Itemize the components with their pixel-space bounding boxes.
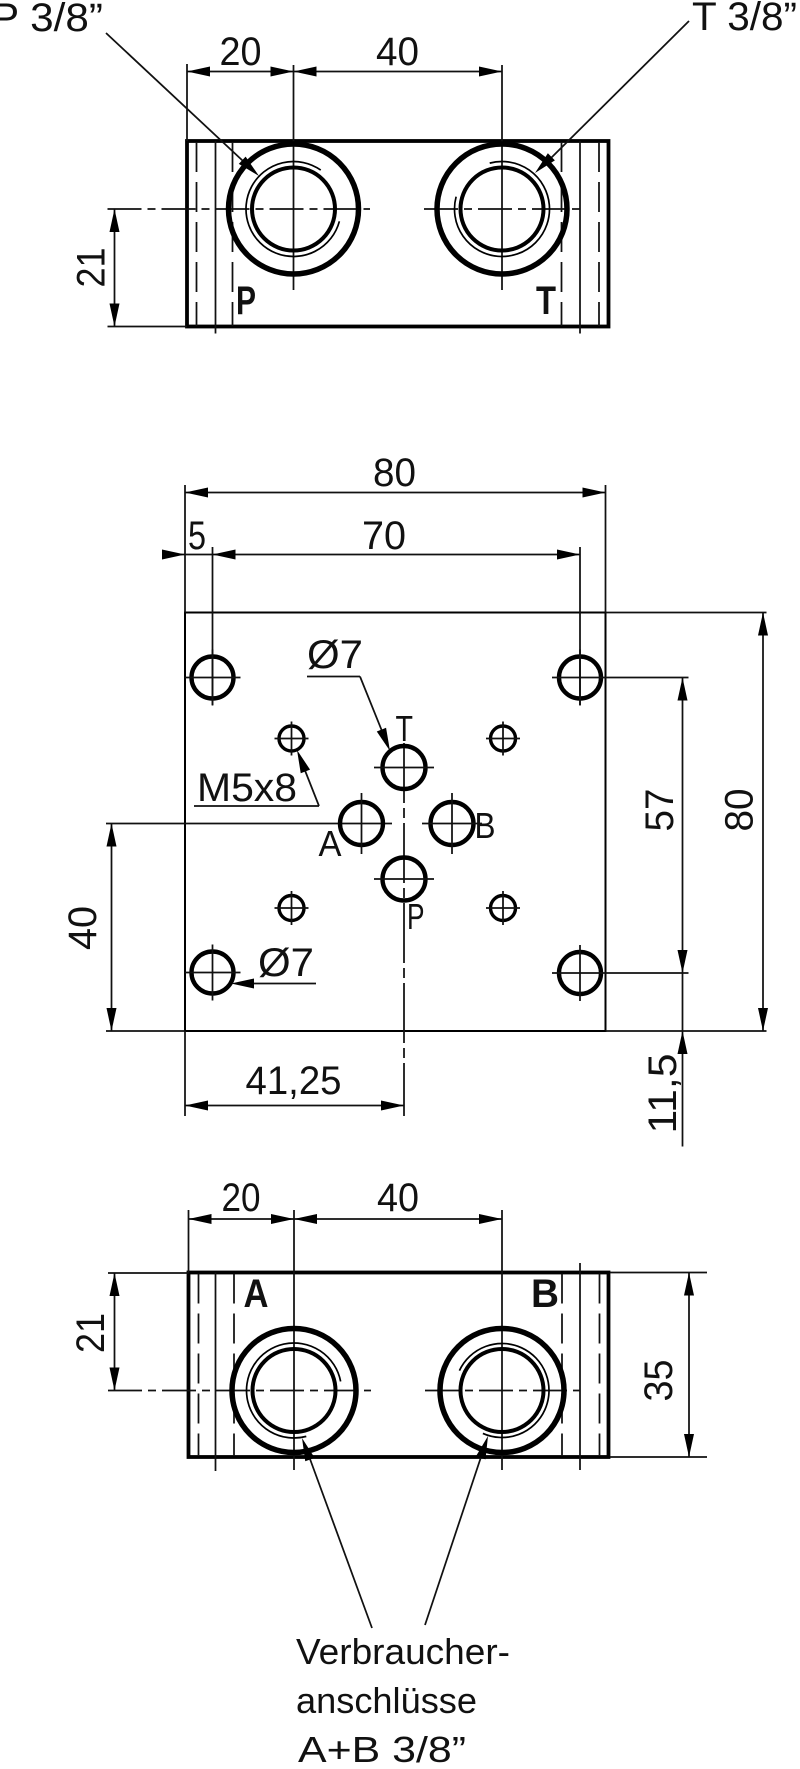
svg-text:57: 57 — [638, 789, 682, 832]
leader arrow d7 bottom — [231, 979, 254, 989]
arrow 57 down — [678, 950, 688, 973]
port T bore circle — [461, 168, 544, 251]
ext line plate left up — [184, 485, 186, 613]
top view hidden line right b — [561, 142, 563, 326]
bolt hole top-right crosshair — [552, 677, 608, 679]
leader arrow port B consumer — [476, 1434, 493, 1459]
port T counterbore circle — [437, 144, 567, 274]
svg-text:80: 80 — [718, 789, 762, 832]
svg-text:21: 21 — [69, 1313, 113, 1353]
port A vertical centerline — [293, 1210, 295, 1470]
arrow b40 left — [294, 1214, 317, 1224]
svg-text:Ø7: Ø7 — [307, 633, 363, 677]
arrow 5 (outside) — [162, 550, 185, 560]
port B crosshair — [451, 793, 453, 854]
svg-text:20: 20 — [222, 1176, 261, 1220]
top view hidden line left b — [232, 142, 234, 326]
M5 top-right crosshair — [486, 738, 520, 740]
ext line hole row bottom — [608, 972, 689, 974]
leader arrow M5x8 — [292, 748, 310, 773]
svg-text:anschlüsse: anschlüsse — [296, 1680, 477, 1721]
M5 bottom-right hole — [491, 896, 516, 921]
ext line plate bottom right — [606, 1030, 767, 1032]
arrow 20 right — [271, 67, 294, 77]
port B bore circle — [461, 1349, 544, 1432]
dim line 21 top view — [114, 209, 116, 327]
bottom side-port centerline left — [215, 1273, 217, 1472]
bolt hole bottom-left — [192, 952, 234, 994]
port B outer circle — [440, 1329, 564, 1453]
port A middle — [340, 802, 383, 845]
svg-text:T: T — [396, 708, 414, 749]
M5 top-right hole — [491, 726, 516, 751]
arrow b40 right — [479, 1214, 502, 1224]
svg-text:80: 80 — [373, 451, 416, 495]
leader line port A consumer — [310, 1459, 372, 1628]
arrow 21 up — [110, 209, 120, 232]
arrow 11,5 up — [678, 1031, 688, 1054]
port A thread arc — [247, 1343, 341, 1438]
M5 bottom-left crosshair — [275, 907, 309, 909]
arrow 21 down — [110, 304, 120, 327]
svg-text:5: 5 — [188, 514, 206, 558]
leader line T 3/8 — [551, 21, 689, 158]
svg-text:Verbraucher-: Verbraucher- — [296, 1631, 510, 1672]
port A bore circle — [253, 1349, 336, 1432]
arrow 40 right — [479, 67, 502, 77]
arrow 20 left — [187, 67, 210, 77]
arrow 70 right — [557, 550, 580, 560]
leader line port B consumer — [425, 1457, 481, 1625]
port T middle — [383, 746, 426, 789]
dim line 21 bottom — [114, 1273, 116, 1391]
arrow 40 left — [294, 67, 317, 77]
svg-text:A+B 3/8”: A+B 3/8” — [298, 1729, 466, 1769]
dim line 57 — [682, 678, 684, 974]
leader arrow d7 top — [377, 728, 395, 753]
port B horizontal centerline — [425, 1390, 580, 1392]
svg-text:11,5: 11,5 — [641, 1054, 685, 1134]
arrow 80 left — [185, 488, 208, 498]
ext/centerline A row — [106, 823, 392, 825]
leader line d7 bottom — [250, 983, 316, 985]
svg-text:41,25: 41,25 — [246, 1059, 342, 1103]
bottom hidden line left b — [233, 1274, 235, 1457]
bolt hole top-right — [559, 657, 601, 699]
ext line plate top right — [606, 612, 767, 614]
svg-text:Ø7: Ø7 — [258, 941, 314, 985]
ext line bolt col left — [212, 547, 214, 705]
arrow b20 right — [271, 1214, 294, 1224]
port A outer circle — [232, 1329, 356, 1453]
leader line M5x8 — [194, 805, 319, 807]
dim line 35 — [688, 1273, 690, 1458]
svg-text:40: 40 — [377, 1176, 419, 1220]
dim line 20-40 bottom — [189, 1218, 503, 1220]
port T horizontal centerline — [424, 208, 580, 210]
bottom hidden line right a — [561, 1274, 563, 1457]
dim line 20-40 top view — [187, 71, 502, 73]
port P bore circle — [252, 168, 335, 251]
port B middle — [431, 802, 474, 845]
svg-text:B: B — [475, 805, 496, 846]
ext line left edge bottom view — [188, 1210, 190, 1273]
svg-text:A: A — [319, 823, 342, 864]
port T thread arc — [455, 162, 550, 257]
M5 top-left crosshair — [275, 738, 309, 740]
svg-text:21: 21 — [70, 248, 114, 288]
arrow 70 left — [213, 550, 236, 560]
svg-text:B: B — [531, 1272, 559, 1316]
bolt hole bottom-right — [559, 952, 601, 994]
leader arrow T 3/8 — [531, 153, 554, 176]
ext line block bottom right — [610, 1456, 707, 1458]
arrow 41,25 right — [381, 1101, 404, 1111]
top view side-port centerline left — [215, 141, 217, 334]
bottom side-port centerline right — [579, 1263, 581, 1470]
ext line block bottom left — [108, 326, 188, 328]
ext line block top right — [610, 1272, 707, 1274]
port P thread arc — [246, 162, 339, 257]
leader line P 3/8 — [106, 33, 243, 161]
top view block outline — [187, 141, 609, 327]
port P counterbore circle — [229, 144, 359, 274]
top view hidden line left a — [196, 142, 198, 326]
bolt hole top-left — [192, 657, 234, 699]
ext line plate bottom left — [106, 1030, 185, 1032]
M5 bottom-right crosshair — [486, 907, 520, 909]
dim line 11,5 — [682, 973, 684, 1147]
arrow 41,25 left — [185, 1101, 208, 1111]
middle vertical centerline T-P — [403, 743, 405, 1116]
port A horizontal centerline — [108, 1390, 371, 1392]
svg-text:P: P — [407, 896, 425, 937]
arrow 80 right — [583, 488, 606, 498]
ext line bolt col right — [579, 547, 581, 705]
ext line plate left down — [184, 1031, 186, 1116]
middle plate outline — [185, 613, 606, 1032]
bolt hole top-left crosshair — [185, 677, 241, 679]
port P middle — [383, 858, 426, 901]
svg-text:T 3/8”: T 3/8” — [692, 0, 797, 39]
dim line 80 top — [185, 492, 606, 494]
ext line hole row top — [608, 677, 689, 679]
ext line plate right up — [605, 485, 607, 613]
svg-text:35: 35 — [637, 1360, 681, 1402]
port T vertical centerline — [501, 65, 503, 290]
port B thread arc — [459, 1344, 549, 1438]
dim line 40 left — [111, 824, 113, 1032]
dim line 5-70 — [162, 554, 580, 556]
M5 top-left hole — [279, 726, 304, 751]
port P vertical centerline — [293, 65, 295, 290]
leader line d7 top — [307, 676, 360, 678]
dim line 41,25 — [185, 1105, 404, 1107]
svg-text:20: 20 — [220, 30, 262, 74]
leader arrow port A consumer — [297, 1436, 314, 1461]
port P crosshair — [374, 878, 434, 880]
bottom hidden line right b — [599, 1274, 601, 1457]
port T crosshair — [374, 767, 434, 769]
arrow b21 down — [110, 1368, 120, 1391]
svg-text:40: 40 — [61, 906, 105, 950]
top view hidden line right a — [598, 142, 600, 326]
arrow b20 left — [189, 1214, 212, 1224]
svg-text:70: 70 — [362, 514, 406, 558]
port B vertical centerline — [501, 1210, 503, 1470]
arrow b21 up — [110, 1273, 120, 1296]
bottom hidden line left a — [198, 1274, 200, 1457]
port P horizontal centerline — [108, 208, 371, 210]
leader arrow P 3/8 — [239, 157, 263, 180]
bolt hole bottom-left crosshair — [185, 972, 241, 974]
svg-text:P 3/8”: P 3/8” — [0, 0, 103, 40]
arrow 80r up — [758, 613, 768, 636]
dim line 80 right — [762, 613, 764, 1032]
arrow 35 down — [684, 1434, 694, 1457]
ext line left edge top view — [186, 64, 188, 141]
top view side-port centerline right — [579, 141, 581, 334]
arrow 80r down — [758, 1008, 768, 1031]
svg-text:M5x8: M5x8 — [197, 766, 297, 810]
svg-text:T: T — [536, 279, 556, 323]
svg-text:40: 40 — [376, 30, 419, 74]
svg-text:A: A — [244, 1272, 269, 1316]
arrow 40 up — [107, 824, 117, 847]
arrow 40 down — [107, 1008, 117, 1031]
bolt hole bottom-right crosshair — [552, 972, 608, 974]
bottom view block outline — [189, 1273, 609, 1458]
svg-text:P: P — [236, 279, 256, 323]
M5 bottom-left hole — [279, 896, 304, 921]
arrow 57 up — [678, 678, 688, 701]
ext line block top left — [108, 1272, 189, 1274]
arrow 35 up — [684, 1273, 694, 1296]
port A crosshair — [361, 793, 363, 854]
